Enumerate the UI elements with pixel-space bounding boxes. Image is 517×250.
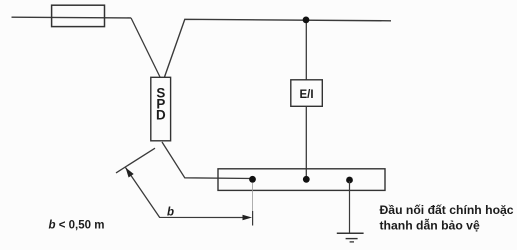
fuse F1 (series disconnector) xyxy=(52,5,105,26)
wire: drop from fuse line down to SPD top xyxy=(131,18,160,77)
wire: SPD top up to right-going line conductor xyxy=(165,19,392,77)
terminal dot 3 on busbar xyxy=(346,177,353,184)
wire: vertical conductor from junction through E/I to busbar xyxy=(305,20,307,179)
svg-text:b: b xyxy=(167,207,174,219)
arrowhead left (points to slanted extension line) xyxy=(126,168,134,178)
dimension extension tick below dot 1 xyxy=(252,211,254,226)
wire: SPD bottom down to busbar (connection of length b) xyxy=(162,142,253,179)
dimension extension line below dot 1 (faint upper part) xyxy=(252,183,254,211)
SPD box U1 xyxy=(151,77,171,141)
svg-text:Đầu nối đất chính hoặc: Đầu nối đất chính hoặc xyxy=(380,203,514,217)
junction dot (node on line conductor) xyxy=(303,17,310,24)
equipment E/I (installation to be protected) xyxy=(291,80,323,107)
terminal dot 2 on busbar xyxy=(303,176,310,183)
arrowhead right (points to tick below dot 1) xyxy=(243,215,253,221)
ground (earth electrode symbol) xyxy=(337,232,364,234)
busbar: main earthing terminal / protective bar xyxy=(218,169,385,191)
wire: line conductor from left edge through fuse xyxy=(12,16,132,19)
wire: earthing conductor from dot 3 down to ground xyxy=(349,181,351,233)
terminal dot 1 on busbar xyxy=(249,176,256,183)
svg-text:D: D xyxy=(156,108,166,123)
dimension line b (bent leader with two arrowheads) xyxy=(126,168,246,218)
dimension extension line at SPD (slanted) xyxy=(116,148,155,173)
svg-text:E/I: E/I xyxy=(299,89,313,101)
svg-text:b < 0,50 m: b < 0,50 m xyxy=(49,220,105,232)
svg-text:thanh dẫn bảo vệ: thanh dẫn bảo vệ xyxy=(380,218,480,233)
